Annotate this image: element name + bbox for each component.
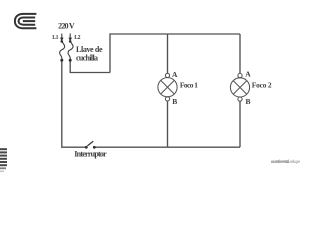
svg-text:ucontinental.edu.pe: ucontinental.edu.pe — [271, 159, 300, 164]
svg-text:A: A — [172, 70, 178, 79]
svg-text:B: B — [172, 97, 177, 106]
svg-text:L1: L1 — [52, 35, 58, 41]
svg-text:cuchilla: cuchilla — [76, 53, 98, 62]
svg-text:Foco 1: Foco 1 — [180, 81, 198, 90]
svg-text:Foco 2: Foco 2 — [252, 81, 272, 90]
svg-text:B: B — [246, 97, 251, 106]
svg-text:L2: L2 — [74, 35, 80, 41]
svg-text:A: A — [245, 70, 251, 79]
svg-text:Interruptor: Interruptor — [74, 149, 107, 158]
svg-text:220 V: 220 V — [58, 22, 75, 31]
